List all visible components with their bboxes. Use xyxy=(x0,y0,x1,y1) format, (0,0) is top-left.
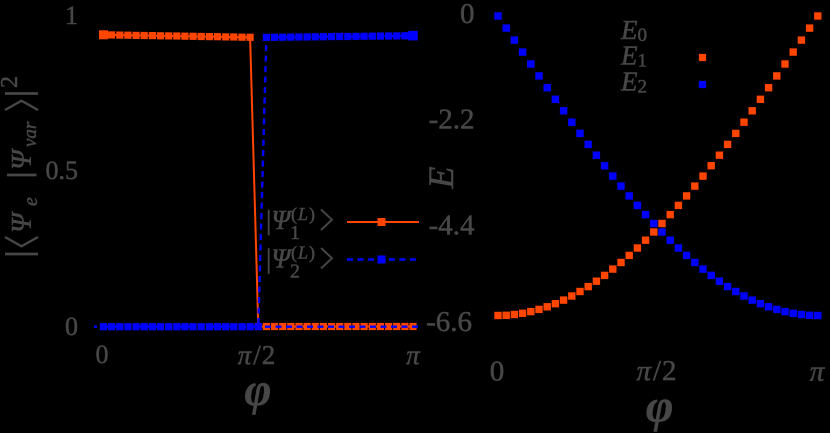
left panel legend orange line xyxy=(347,221,419,223)
svg-text:-2.2: -2.2 xyxy=(429,104,475,136)
svg-text:π: π xyxy=(810,356,826,388)
left panel: blue dashed series line Psi2 overlap xyxy=(104,36,414,327)
svg-text:e: e xyxy=(20,197,42,206)
right panel: orange E1 energy markers xyxy=(494,12,821,319)
svg-text:0.5: 0.5 xyxy=(46,156,79,185)
svg-text:2: 2 xyxy=(0,76,23,88)
left panel: orange series line Psi1 overlap xyxy=(104,35,414,327)
svg-text:0: 0 xyxy=(96,340,109,369)
right panel: blue E2 energy markers xyxy=(494,12,821,319)
left panel y axis label |<Psi_e|Psi_var>|^2 rotated xyxy=(0,76,42,254)
svg-text:0: 0 xyxy=(65,312,78,341)
left panel legend blue dashed line xyxy=(347,258,419,260)
svg-text:0: 0 xyxy=(460,0,475,30)
left panel: blue series markers Psi2 xyxy=(100,31,418,330)
svg-text:1: 1 xyxy=(65,1,78,30)
svg-text:φ: φ xyxy=(646,381,674,433)
svg-text:Ψ: Ψ xyxy=(7,148,38,170)
right panel y axis label E rotated xyxy=(421,167,461,190)
svg-text:π: π xyxy=(406,340,421,370)
left panel: orange series markers Psi1 xyxy=(99,30,417,330)
right panel legend E_1 orange marker xyxy=(699,54,706,61)
svg-text:0: 0 xyxy=(490,356,505,388)
right panel legend E_2 blue marker xyxy=(699,81,706,88)
svg-text:2: 2 xyxy=(290,261,300,283)
left panel legend orange marker xyxy=(378,218,386,226)
svg-text:var: var xyxy=(20,121,41,147)
left panel legend blue marker xyxy=(378,256,386,264)
svg-text:Ψ: Ψ xyxy=(7,211,38,233)
svg-text:φ: φ xyxy=(245,364,272,415)
svg-text:-4.4: -4.4 xyxy=(429,210,475,242)
svg-text:-6.6: -6.6 xyxy=(426,306,472,338)
svg-text:E: E xyxy=(421,167,461,190)
svg-text:1: 1 xyxy=(290,222,300,244)
left panel: extra blue dashed baseline segment bottom-right xyxy=(265,326,418,328)
